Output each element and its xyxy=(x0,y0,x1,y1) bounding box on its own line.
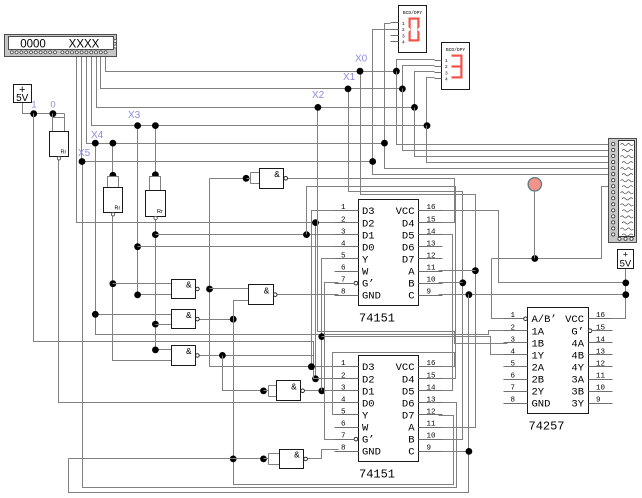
svg-text:D3: D3 xyxy=(362,206,375,218)
svg-text:2A: 2A xyxy=(532,362,545,374)
U1 pin 6 (W) xyxy=(335,271,359,273)
U2 pin 15 (D4) xyxy=(419,378,443,380)
svg-text:16: 16 xyxy=(596,312,606,320)
svg-text:X1: X1 xyxy=(343,72,356,83)
junction gate G4 output xyxy=(230,316,237,323)
svg-text:13: 13 xyxy=(427,396,437,404)
svg-text:9: 9 xyxy=(427,445,432,453)
svg-text:16: 16 xyxy=(427,360,437,368)
wire gate G6 output to U2 pin3 D1 xyxy=(304,390,339,392)
junction U2 pin9 C xyxy=(466,448,473,455)
wire B select net: X1 down to pin10s xyxy=(349,89,463,440)
wire gate G2 output to gate G3 input xyxy=(210,288,249,290)
wire X2 to connector pin3 xyxy=(415,108,609,157)
U1 pin 9 (C) xyxy=(419,295,443,297)
NAND gate G5 xyxy=(172,346,196,366)
svg-text:2Y: 2Y xyxy=(532,387,545,399)
svg-text:X4: X4 xyxy=(91,130,104,141)
svg-text:&: & xyxy=(186,311,192,321)
svg-text:2: 2 xyxy=(445,64,448,70)
wire display2 pin2 to X1 junction xyxy=(403,66,435,89)
resistor R2 top lead xyxy=(108,177,119,188)
svg-text:VCC: VCC xyxy=(396,206,415,218)
junction C select branch down xyxy=(466,291,473,298)
junction A select U1 pin11 xyxy=(472,267,479,274)
svg-text:7: 7 xyxy=(341,433,346,441)
U2 pin 16 (VCC) xyxy=(419,366,443,368)
svg-text:6: 6 xyxy=(341,265,346,273)
wire G7 input line xyxy=(69,458,264,460)
svg-text:14: 14 xyxy=(596,336,606,344)
svg-text:1: 1 xyxy=(445,58,448,64)
junction G7 input branch xyxy=(230,456,237,463)
U2 pin 10 (B) xyxy=(419,439,443,441)
svg-text:&: & xyxy=(186,281,192,291)
junction R2 top xyxy=(110,172,117,179)
wire net D3: gate G2 output vertical xyxy=(210,179,339,367)
wire node 1 vertical to lower rail xyxy=(34,114,339,379)
U3 pin 9 (3Y) xyxy=(589,403,613,405)
wire C select down to U2 pin9 xyxy=(439,295,469,452)
BCD/DPY display DSP1 body xyxy=(399,6,427,53)
svg-text:7: 7 xyxy=(511,385,516,393)
svg-text:13: 13 xyxy=(596,348,606,356)
wire select A/B down to 74257 pin1 xyxy=(492,259,508,319)
LED indicator xyxy=(528,178,541,191)
U1 pin 10 (B) xyxy=(419,283,443,285)
resistor R2 output terminal xyxy=(111,213,114,216)
svg-text:B: B xyxy=(408,279,414,291)
wire X3 to connector pin4 xyxy=(427,126,609,163)
wire gate G4 output net xyxy=(200,319,234,321)
display DSP2 pin 4 xyxy=(435,78,442,80)
wire U1 D5 pin14 down to U2 pin14 xyxy=(439,235,453,391)
svg-text:74257: 74257 xyxy=(529,420,565,434)
svg-text:6: 6 xyxy=(511,373,516,381)
U3 pin 7 (2Y) xyxy=(504,391,528,393)
wire X5 branch down to U2 D6 xyxy=(83,162,457,488)
display DSP1 pin 2 xyxy=(391,29,399,31)
svg-text:3A: 3A xyxy=(571,375,584,387)
svg-text:4B: 4B xyxy=(571,350,584,362)
junction R3 gate4 input xyxy=(152,321,159,328)
svg-text:5: 5 xyxy=(341,408,346,416)
svg-text:D1: D1 xyxy=(362,230,375,242)
svg-text:5: 5 xyxy=(511,360,516,368)
display DSP2 pin 2 xyxy=(435,66,442,68)
wire net X5 from display xyxy=(82,56,373,162)
svg-text:D2: D2 xyxy=(362,374,375,386)
svg-text:5: 5 xyxy=(341,252,346,260)
wire net X0 from display to row xyxy=(106,56,397,72)
junction LED wire xyxy=(531,255,538,262)
display DSP2 pin 1 xyxy=(435,60,442,62)
wire X1 to connector pin2 xyxy=(403,89,609,151)
svg-text:X0: X0 xyxy=(355,54,368,65)
resistor R3 top lead xyxy=(150,177,161,191)
svg-text:0: 0 xyxy=(50,100,55,111)
svg-text:1Y: 1Y xyxy=(532,350,545,362)
wire U2 Y (pin5) up and over to U2 VCC pin16 xyxy=(333,353,455,415)
svg-text:1A: 1A xyxy=(532,326,545,338)
wire D2 branch down to U2 D2 xyxy=(316,223,339,379)
wire X3 to resistor R3 top xyxy=(155,126,157,177)
junction X4 gate4 input xyxy=(92,311,99,318)
svg-text:D2: D2 xyxy=(362,218,375,230)
wire net X2 from display xyxy=(97,56,415,108)
svg-text:2: 2 xyxy=(341,216,346,224)
svg-text:1: 1 xyxy=(341,360,346,368)
U2 pin 6 (W) xyxy=(335,427,359,429)
U3 pin 8 (GND) xyxy=(504,403,528,405)
svg-text:B: B xyxy=(408,435,414,447)
NAND gate G6 xyxy=(277,381,301,401)
U2 pin 4 (D0) xyxy=(335,402,359,404)
junction gate G5 output xyxy=(219,352,226,359)
svg-text:Rr: Rr xyxy=(114,206,120,212)
U2 pin 7 (G’) xyxy=(354,437,358,441)
U1 pin 16 (VCC) xyxy=(419,210,443,212)
U2 pin 9 (C) xyxy=(419,451,443,453)
junction X4 wire xyxy=(92,140,99,147)
wire gate G1 output to U1 pin15 D4 xyxy=(288,179,455,223)
NAND gate G4 xyxy=(172,310,196,329)
U3 pin 6 (2B) xyxy=(504,379,528,381)
wire display2 pin1 to X0 junction xyxy=(397,60,435,72)
svg-text:VCC: VCC xyxy=(396,362,415,374)
svg-text:4Y: 4Y xyxy=(571,362,584,374)
wire gate G7 input tie xyxy=(260,456,267,463)
svg-text:10: 10 xyxy=(427,277,437,285)
display DSP1 pin 1 xyxy=(391,22,399,24)
junction X3 gate2 input 2 xyxy=(134,292,141,299)
svg-text:&: & xyxy=(294,451,300,461)
junction D3 line xyxy=(308,363,315,370)
svg-text:11: 11 xyxy=(427,265,437,273)
junction X2 wire xyxy=(315,104,322,111)
svg-text:2: 2 xyxy=(402,27,405,33)
wire U1 G-bar (pin7) down to U2 pin7 xyxy=(325,283,339,440)
wire R2 output down to gate G2 and G5 inputs xyxy=(113,215,172,361)
junction X3 / display2 / connector xyxy=(424,122,431,129)
BCD/DPY display DSP2 body xyxy=(442,43,470,90)
svg-text:10: 10 xyxy=(427,433,437,441)
wire net X4 from display xyxy=(87,56,385,144)
svg-text:74151: 74151 xyxy=(359,468,395,482)
svg-text:3Y: 3Y xyxy=(571,399,584,411)
U3 pin 2 (1A) xyxy=(504,330,528,332)
wire U1 D3 pin1 down to U2 D3 line xyxy=(312,211,339,367)
wire gate G5 output net xyxy=(200,355,314,357)
junction X3 D0 row xyxy=(134,243,141,250)
junction X0 wire xyxy=(357,68,364,75)
wire X2 branch down to 74257 and U2 VCC xyxy=(318,108,508,344)
junction R3 D1 row xyxy=(152,231,159,238)
svg-text:74151: 74151 xyxy=(359,312,395,326)
svg-text:&: & xyxy=(291,383,297,393)
connector / probe strip xyxy=(609,139,637,243)
junction X5 / display1 pin2 xyxy=(369,158,376,165)
svg-text:X2: X2 xyxy=(312,90,325,101)
junction +5V rail 282.9 xyxy=(622,280,629,287)
svg-text:W: W xyxy=(362,423,369,435)
wire D0 row to 74151 U1 pin4 xyxy=(138,246,339,248)
wire U1 Y line to 74257 pin4 1Y xyxy=(322,337,508,355)
wire gate G3 output to U1 pin8 xyxy=(277,294,339,296)
svg-text:D5: D5 xyxy=(402,230,415,242)
svg-text:4: 4 xyxy=(402,40,405,46)
U3 pin 14 (4A) xyxy=(589,342,613,344)
U1 pin 7 (G’) xyxy=(354,281,358,285)
U1 pin 3 (D1) xyxy=(335,234,359,236)
U1 pin 13 (D6) xyxy=(419,246,443,248)
resistor R1 body xyxy=(50,132,69,157)
junction B select U1 pin10 xyxy=(459,279,466,286)
junction D2 branch xyxy=(312,219,319,226)
power supply +5V right xyxy=(618,250,634,269)
U3 pin 3 (1B) xyxy=(504,342,528,344)
svg-text:12: 12 xyxy=(596,360,605,368)
U3 pin 12 (4Y) xyxy=(589,366,613,368)
NAND gate G1 xyxy=(260,169,284,189)
U2 pin 5 (Y) xyxy=(335,414,359,416)
svg-text:11: 11 xyxy=(596,373,606,381)
svg-text:16: 16 xyxy=(427,204,437,212)
svg-text:&: & xyxy=(274,170,280,180)
junction X4 / display1 pin1 xyxy=(381,140,388,147)
junction X5 branch xyxy=(79,158,86,165)
wire net X1 from display xyxy=(101,56,403,89)
svg-text:4A: 4A xyxy=(571,338,584,350)
svg-text:9: 9 xyxy=(427,289,432,297)
resistor R1 top lead xyxy=(53,118,65,132)
resistor R3 output terminal xyxy=(154,216,157,219)
svg-text:12: 12 xyxy=(427,252,436,260)
display DSP2 digit 3 xyxy=(452,55,463,57)
wire R1 output down to U2 D0 xyxy=(59,159,339,403)
U2 pin 8 (GND) xyxy=(335,451,359,453)
wire D1 row to 74151 U1 pin3 xyxy=(156,234,339,236)
svg-text:G’: G’ xyxy=(571,326,584,338)
wire X0 to connector pin1 xyxy=(397,72,609,145)
svg-text:GND: GND xyxy=(362,291,381,303)
U1 pin 4 (D0) xyxy=(335,246,359,248)
U1 pin 12 (D7) xyxy=(419,258,443,260)
svg-text:X3: X3 xyxy=(128,110,141,121)
svg-text:BCD/DPY: BCD/DPY xyxy=(446,47,466,53)
svg-text:2B: 2B xyxy=(532,375,545,387)
NAND gate G7 xyxy=(280,450,304,469)
wire display1 pin1 down through X4 to connector xyxy=(385,24,609,169)
junction gate G6 output / Y1 pullup xyxy=(318,388,325,395)
wire gate G1 input tie xyxy=(210,178,247,180)
svg-text:0000: 0000 xyxy=(20,39,46,51)
svg-text:3: 3 xyxy=(511,336,516,344)
svg-text:2: 2 xyxy=(341,372,346,380)
U3 pin 5 (2A) xyxy=(504,366,528,368)
svg-text:GND: GND xyxy=(532,399,551,411)
svg-text:D6: D6 xyxy=(402,398,415,410)
wire +5V left to nodes 1 and 0 xyxy=(23,103,65,114)
svg-text:D3: D3 xyxy=(362,362,375,374)
U2 pin 2 (D2) xyxy=(335,378,359,380)
U2 pin 11 (A) xyxy=(419,427,443,429)
wire G4 out up to gate G3 input2 xyxy=(234,301,249,320)
wire G4 out down to gate G7 and U2 D7 line xyxy=(234,320,454,485)
wire C select net: U1 pin9 to +5V rail xyxy=(439,294,626,296)
U2 pin 13 (D6) xyxy=(419,402,443,404)
svg-text:D6: D6 xyxy=(402,242,415,254)
wire X3 branch down xyxy=(138,126,172,295)
svg-text:D1: D1 xyxy=(362,386,375,398)
svg-text:X5: X5 xyxy=(78,148,91,159)
svg-text:3B: 3B xyxy=(571,387,584,399)
svg-text:A: A xyxy=(408,423,415,435)
display DSP1 digit 0 xyxy=(409,18,420,20)
svg-text:Rr: Rr xyxy=(157,209,163,215)
svg-text:&: & xyxy=(264,286,270,296)
svg-text:3: 3 xyxy=(445,70,448,76)
svg-text:1: 1 xyxy=(341,204,346,212)
svg-text:14: 14 xyxy=(427,228,437,236)
svg-text:9: 9 xyxy=(596,397,601,405)
svg-text:VCC: VCC xyxy=(565,314,584,326)
resistor R1 output terminal xyxy=(57,157,60,160)
IC U3 body xyxy=(528,308,589,414)
wire U1 Y (pin5) down to Y line and G6 output xyxy=(322,259,339,391)
svg-text:&: & xyxy=(186,347,192,357)
svg-text:14: 14 xyxy=(427,384,437,392)
U1 pin 11 (A) xyxy=(419,271,443,273)
svg-text:8: 8 xyxy=(341,445,346,453)
NAND gate G2 xyxy=(172,280,196,299)
wire gate G7 output to U2 pin8 xyxy=(306,450,339,459)
U3 pin 4 (1Y) xyxy=(504,354,528,356)
node 0 junction xyxy=(50,110,57,117)
junction Y line xyxy=(318,333,325,340)
wire A select net: X0 down to pin11s xyxy=(361,72,476,428)
junction X3 / R3 xyxy=(152,122,159,129)
svg-text:Y: Y xyxy=(362,254,369,266)
svg-text:4: 4 xyxy=(341,396,346,404)
display DSP1 pin 4 xyxy=(391,41,399,43)
wire net D2 from display pin to 74151 U1 pin 2 xyxy=(77,56,339,223)
junction R2 output gate2 input xyxy=(110,280,117,287)
junction X1 / display2 / connector xyxy=(399,86,406,93)
wire D1 vertical up and over to U2 D4 xyxy=(307,187,456,379)
display DSP2 pin 3 xyxy=(435,72,442,74)
U1 pin 2 (D2) xyxy=(335,222,359,224)
svg-text:2: 2 xyxy=(511,324,516,332)
junction D2 at U2 pin2 row xyxy=(312,375,319,382)
svg-text:11: 11 xyxy=(427,421,437,429)
wire display2 pin3 to X2 junction xyxy=(415,72,435,108)
U2 pin 3 (D1) xyxy=(335,390,359,392)
svg-text:4: 4 xyxy=(341,240,346,248)
wire R3 output down xyxy=(156,219,172,350)
wire node 0 into resistor R1 xyxy=(52,114,54,118)
junction X1 wire xyxy=(345,86,352,93)
junction X3 wire xyxy=(134,122,141,129)
wire LED to net xyxy=(534,191,536,259)
U3 pin 16 (VCC) xyxy=(589,318,613,320)
svg-text:D7: D7 xyxy=(402,410,415,422)
svg-text:W: W xyxy=(362,267,369,279)
resistor R2 body xyxy=(104,188,123,213)
wire U1 VCC pin16 to +5V rail xyxy=(439,211,626,283)
wire gate G6 input tie xyxy=(260,388,267,395)
svg-text:Rr: Rr xyxy=(60,150,66,156)
junction R3 top xyxy=(152,171,159,178)
junction X0 / display2 / connector xyxy=(393,68,400,75)
svg-text:5V: 5V xyxy=(620,259,632,270)
svg-text:7: 7 xyxy=(341,277,346,285)
U1 pin 15 (D4) xyxy=(419,222,443,224)
junction D1 row to vertical xyxy=(303,231,310,238)
svg-text:BCD/DPY: BCD/DPY xyxy=(403,10,423,16)
svg-text:C: C xyxy=(408,291,414,303)
wire G7 input loop down to C net xyxy=(69,452,469,493)
hex display module xyxy=(5,35,117,57)
svg-text:D0: D0 xyxy=(362,398,375,410)
svg-text:A: A xyxy=(408,267,415,279)
junction X4 / R2 xyxy=(110,140,117,147)
junction X2 / display2 / connector xyxy=(411,104,418,111)
svg-text:XXXX: XXXX xyxy=(69,39,100,51)
NAND gate G3 xyxy=(249,285,274,305)
svg-text:8: 8 xyxy=(511,397,516,405)
svg-text:4: 4 xyxy=(445,77,448,83)
power supply +5V left xyxy=(14,85,32,103)
svg-text:10: 10 xyxy=(596,385,606,393)
node 1 junction xyxy=(30,110,37,117)
svg-text:15: 15 xyxy=(596,324,606,332)
svg-text:15: 15 xyxy=(427,216,437,224)
wire net X3 from display xyxy=(92,56,427,126)
IC U1 body xyxy=(359,200,419,306)
junction +5V rail 294.7 xyxy=(622,291,629,298)
junction R3 gate5 input xyxy=(152,347,159,354)
wire X4 to resistor R2 top xyxy=(112,144,114,177)
U1 pin 1 (D3) xyxy=(335,210,359,212)
svg-text:D0: D0 xyxy=(362,242,375,254)
resistor R3 body xyxy=(146,191,166,217)
U1 pin 8 (GND) xyxy=(335,295,359,297)
svg-text:3: 3 xyxy=(402,33,405,39)
wire LED net: U1 D7 row to connector pin 8 and 74257 select xyxy=(492,187,609,259)
U3 pin 11 (3A) xyxy=(589,379,613,381)
U1 pin 14 (D5) xyxy=(419,234,443,236)
junction gate G2 output xyxy=(206,286,213,293)
U3 pin 10 (3B) xyxy=(589,391,613,393)
svg-text:D5: D5 xyxy=(402,386,415,398)
svg-text:6: 6 xyxy=(341,421,346,429)
display DSP1 pin 3 xyxy=(391,35,399,37)
wire X4 branch down to gate G4 and upper rail to 74257 1A xyxy=(96,144,508,335)
svg-text:5V: 5V xyxy=(16,93,29,104)
svg-text:1B: 1B xyxy=(532,338,545,350)
svg-text:12: 12 xyxy=(427,408,436,416)
svg-text:3: 3 xyxy=(341,384,346,392)
svg-text:1: 1 xyxy=(31,100,36,111)
svg-text:A/B’: A/B’ xyxy=(532,314,557,326)
svg-text:G’: G’ xyxy=(362,279,375,291)
wire 74257 pin16 VCC to +5V xyxy=(609,269,626,319)
svg-text:D4: D4 xyxy=(402,374,415,386)
svg-text:GND: GND xyxy=(362,447,381,459)
U3 pin 15 (G’) xyxy=(588,329,592,333)
svg-text:D4: D4 xyxy=(402,218,415,230)
